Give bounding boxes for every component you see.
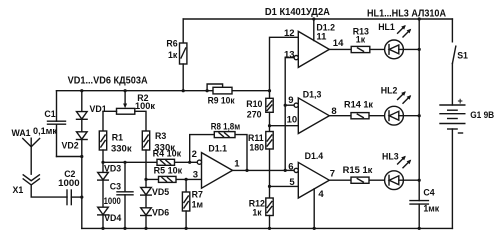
svg-text:0,1мк: 0,1мк	[33, 126, 58, 136]
svg-text:1к: 1к	[356, 34, 366, 44]
svg-text:HL1...HL3 АЛ310А: HL1...HL3 АЛ310А	[367, 9, 446, 20]
wire bottom ground rail	[82, 227, 453, 229]
svg-text:8: 8	[331, 106, 336, 117]
capacitor C4	[410, 201, 428, 229]
junction C2 right	[80, 196, 83, 199]
resistor R14	[351, 113, 369, 119]
svg-text:R1: R1	[112, 133, 123, 143]
svg-text:R3: R3	[155, 131, 166, 141]
svg-text:100к: 100к	[135, 101, 156, 111]
junction pin11 top rail	[312, 17, 315, 20]
junction R9 tap	[206, 89, 209, 92]
svg-text:1мк: 1мк	[423, 204, 439, 214]
resistor R10	[266, 91, 273, 126]
junction ladder tap2	[268, 185, 271, 188]
junction signal bus bottom	[284, 169, 287, 172]
G1 minus sign	[459, 132, 463, 134]
svg-text:D1.4: D1.4	[305, 151, 324, 161]
wire pin2 row	[103, 161, 190, 163]
wire D1.3 output	[329, 115, 384, 117]
svg-text:R14 1к: R14 1к	[344, 99, 374, 109]
svg-text:R5 10к: R5 10к	[154, 166, 183, 176]
junction ladder top	[268, 89, 271, 92]
svg-text:D1 К1401УД2А: D1 К1401УД2А	[265, 7, 330, 18]
connector X1	[23, 175, 67, 197]
svg-text:D1,3: D1,3	[303, 90, 322, 100]
resistor R6	[180, 19, 187, 91]
junction R12 bottom	[268, 227, 271, 230]
junction VD1 top	[80, 89, 83, 92]
junction VD6 bottom	[144, 227, 147, 230]
junction C3 bottom	[123, 227, 126, 230]
potentiometer R2	[103, 91, 146, 131]
wire pin12 branch	[270, 37, 299, 90]
svg-text:G1 9В: G1 9В	[470, 110, 494, 120]
svg-text:R8 1,8м: R8 1,8м	[211, 122, 241, 132]
wire D1.2 output	[329, 48, 384, 50]
svg-text:330к: 330к	[111, 144, 132, 154]
wire left column down	[81, 157, 83, 229]
junction C3 top	[123, 161, 126, 164]
diode VD4	[98, 180, 109, 228]
junction C4 bottom	[418, 227, 421, 230]
svg-text:270: 270	[247, 110, 262, 120]
resistor R4	[157, 159, 175, 165]
svg-text:12: 12	[284, 28, 295, 39]
diode VD2	[77, 119, 88, 156]
svg-text:HL2: HL2	[381, 86, 398, 96]
junction ladder tap1	[268, 124, 271, 127]
capacitor C3	[117, 162, 133, 228]
capacitor C2	[67, 190, 82, 205]
junction HL3 rail	[418, 179, 421, 182]
resistor R8 feedback	[190, 132, 247, 171]
junction R6 bottom	[182, 89, 185, 92]
wire middle rail	[57, 90, 270, 92]
svg-text:2: 2	[192, 149, 197, 160]
LED HL3	[385, 171, 420, 190]
op-amp D1.1	[197, 153, 232, 189]
junction R7 top	[185, 178, 188, 181]
resistor R12	[266, 186, 273, 228]
svg-text:HL1: HL1	[378, 22, 395, 32]
svg-text:VD2: VD2	[62, 141, 79, 151]
trimmer R9	[207, 84, 232, 94]
svg-text:1000: 1000	[104, 196, 121, 206]
svg-text:WA1: WA1	[12, 128, 31, 138]
wire pin10	[270, 125, 299, 127]
wire pin5	[270, 185, 299, 187]
diode VD1	[77, 91, 88, 120]
wire signal bus	[284, 58, 286, 171]
resistor R1	[99, 131, 106, 162]
junction R1 bottom	[101, 161, 104, 164]
junction feedback top	[188, 161, 191, 164]
svg-text:R15 1к: R15 1к	[343, 165, 373, 175]
svg-text:VD4: VD4	[104, 213, 121, 223]
wire D1.4 output	[329, 179, 384, 181]
svg-text:9: 9	[288, 95, 293, 106]
svg-text:HL3: HL3	[382, 152, 399, 162]
svg-text:VD3: VD3	[104, 163, 121, 173]
svg-text:R6: R6	[166, 39, 177, 49]
svg-text:R9 10к: R9 10к	[208, 96, 236, 106]
wire D1.1 output	[233, 169, 286, 171]
resistor R15	[351, 177, 369, 183]
junction pin4 bottom	[313, 227, 316, 230]
svg-text:10: 10	[287, 115, 298, 126]
svg-text:S1: S1	[457, 50, 468, 60]
svg-text:14: 14	[333, 38, 344, 49]
svg-text:1м: 1м	[192, 199, 203, 209]
wire pin3 row	[146, 178, 202, 180]
svg-text:3: 3	[193, 170, 198, 181]
svg-text:R4 10к: R4 10к	[153, 148, 182, 158]
LED HL2	[385, 106, 420, 125]
svg-text:1000: 1000	[58, 178, 80, 188]
svg-text:+: +	[458, 96, 463, 106]
junction feedback bottom	[245, 169, 248, 172]
diode VD3	[98, 162, 109, 180]
svg-text:7: 7	[330, 169, 335, 180]
wire LED supply rail	[418, 19, 420, 201]
junction pin9	[284, 104, 287, 107]
diode VD6	[141, 195, 152, 228]
resistor R11	[266, 126, 273, 187]
capacitor C1	[48, 91, 82, 157]
resistor R5	[159, 176, 177, 182]
svg-text:180: 180	[249, 142, 264, 152]
switch S1	[452, 46, 455, 105]
svg-text:C4: C4	[423, 188, 434, 198]
svg-text:6: 6	[288, 161, 293, 172]
svg-text:1к: 1к	[168, 50, 178, 60]
svg-text:4: 4	[318, 189, 324, 200]
svg-text:11: 11	[316, 32, 327, 43]
svg-text:R10: R10	[246, 99, 262, 109]
svg-text:VD6: VD6	[152, 207, 169, 217]
svg-text:5: 5	[289, 177, 295, 188]
battery G1	[440, 105, 465, 129]
op-amp D1.3	[294, 98, 329, 134]
svg-text:13: 13	[284, 50, 295, 61]
diode VD5	[141, 179, 152, 195]
wire pin9 branch	[285, 104, 294, 106]
svg-text:C3: C3	[110, 182, 121, 192]
op-amp D1.2	[294, 19, 329, 67]
junction VD2 bottom	[80, 155, 83, 158]
resistor R13	[351, 46, 370, 52]
junction R7 bottom	[185, 227, 188, 230]
HL1 arrows	[398, 25, 412, 37]
LED HL1	[385, 40, 420, 59]
resistor R7	[182, 179, 189, 228]
svg-text:1: 1	[234, 159, 240, 170]
junction LED rail top	[418, 17, 421, 20]
svg-text:R7: R7	[192, 189, 203, 199]
svg-text:1к: 1к	[252, 208, 262, 218]
wire right column to switch	[451, 19, 453, 42]
junction R3 VD5 R5	[144, 178, 147, 181]
wire pin13 branch	[285, 57, 294, 59]
resistor R3	[142, 131, 149, 179]
svg-text:VD5: VD5	[152, 187, 169, 197]
svg-text:VD1: VD1	[90, 104, 107, 114]
HL2 arrows	[398, 91, 412, 103]
svg-text:VD1...VD6 КД503А: VD1...VD6 КД503А	[68, 76, 148, 87]
svg-text:X1: X1	[13, 185, 24, 195]
op-amp D1.4	[294, 162, 329, 228]
HL3 arrows	[398, 156, 412, 168]
svg-text:D1.1: D1.1	[208, 144, 227, 154]
wire top supply rail	[183, 18, 452, 20]
junction VD4 bottom	[101, 227, 104, 230]
junction R2 wiper on rail	[124, 89, 127, 92]
wire pin6 branch	[285, 169, 294, 171]
antenna WA1	[23, 138, 40, 174]
svg-text:C1: C1	[44, 109, 55, 119]
wire battery to bottom rail	[451, 129, 453, 228]
junction HL2 rail	[418, 114, 421, 117]
junction HL1 rail	[418, 48, 421, 51]
